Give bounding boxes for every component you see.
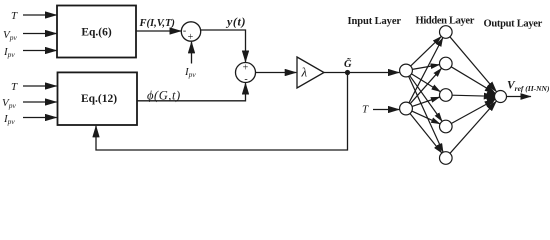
NN hidden node H3 [440,89,453,102]
wire T input to NN input node 2 [373,109,399,111]
NN hidden node H5 [440,152,453,165]
svg-text:λ: λ [301,65,308,80]
summing junction S2 [236,63,256,83]
wire S2 to gain lambda [256,72,297,74]
wire T input to Eq.(6) [23,14,57,16]
block Eq.(6) [57,6,136,58]
svg-text:Vref (II-NN): Vref (II-NN) [507,80,550,94]
NN connection input2 to hidden H1 [409,38,443,103]
svg-text:ϕ(G,t): ϕ(G,t) [147,89,181,103]
svg-text:T: T [11,10,18,22]
svg-text:Ipv: Ipv [184,66,196,79]
svg-text:F(I,V,T): F(I,V,T) [139,18,175,29]
wire T input to Eq.(12) [23,85,57,87]
gain block lambda [297,57,324,88]
NN connection input2 to hidden H3 [412,97,440,106]
svg-text:T: T [11,81,18,93]
NN connection input2 to hidden H5 [410,114,442,154]
wire phi(G,t) from Eq.(12) up into S2 [137,83,246,101]
output wire Vref [507,96,532,98]
block Eq.(12) [58,72,138,125]
NN connection input1 to hidden H1 [411,36,442,66]
NN connection hidden H3 to output [452,95,494,96]
arrowhead cluster at output node [486,89,495,104]
wire F(I,V,T) from Eq.(6) to summer S1 [136,30,181,32]
NN connection hidden H2 to output [451,67,495,94]
svg-text:Ipv: Ipv [3,46,15,59]
svg-text:Output Layer: Output Layer [484,19,543,30]
wire Ipv input to Eq.(6) [23,50,57,52]
wire Ipv up into S1 [191,42,193,64]
NN connection input2 to hidden H2 [410,68,441,104]
svg-text:y(t): y(t) [225,15,246,29]
svg-text:-: - [244,74,247,85]
svg-text:Eq.(12): Eq.(12) [81,93,117,105]
NN hidden node H4 [440,120,453,133]
NN input node 1 [400,64,413,77]
wire lambda output to NN input node 1 [324,72,399,74]
NN connection hidden H4 to output [451,99,495,123]
NN input node 2 [400,102,413,115]
svg-text:T: T [362,104,369,116]
NN connection input1 to hidden H2 [412,65,439,70]
svg-text:+: + [243,63,249,74]
wire Vpv input to Eq.(12) [23,101,57,103]
NN output node [495,91,507,103]
wire Vpv input to Eq.(6) [23,33,57,35]
NN connection input1 to hidden H4 [410,76,443,122]
NN hidden node H2 [440,57,453,70]
wire Ipv input to Eq.(12) [23,117,57,119]
node G (junction dot) [345,70,350,75]
NN connection input1 to hidden H5 [409,76,444,152]
svg-text:Eq.(6): Eq.(6) [81,27,112,39]
svg-text:G̃: G̃ [344,57,352,70]
wire y(t) from S1 to summer S2 [201,30,246,62]
summing junction S1 [181,22,200,41]
svg-text:Vpv: Vpv [2,97,16,110]
svg-text:Hidden Layer: Hidden Layer [416,16,475,27]
svg-text:Input Layer: Input Layer [348,16,402,27]
NN connection input1 to hidden H3 [412,74,441,92]
NN hidden node H1 [440,26,453,39]
NN connection hidden H5 to output [450,101,497,153]
NN connection hidden H1 to output [450,37,497,92]
svg-text:+: + [188,32,194,43]
NN connection input2 to hidden H4 [412,111,440,124]
feedback wire from node G to Eq.(12) bottom [96,73,348,151]
svg-text:Vpv: Vpv [3,29,17,42]
svg-text:-: - [183,26,186,37]
svg-text:Ipv: Ipv [3,113,15,126]
